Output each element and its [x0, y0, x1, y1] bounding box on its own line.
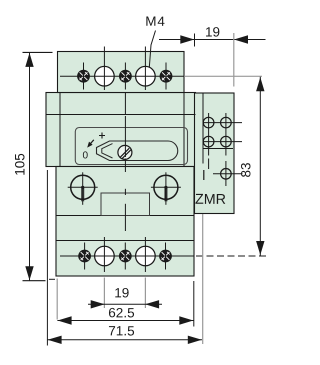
dim 19 top right arrow	[234, 35, 248, 43]
top hole centerline stubs	[83, 63, 85, 90]
ZMR side panel	[195, 93, 235, 214]
dim 71.5 line	[47, 339, 202, 341]
panel inner edge dash continuation	[203, 170, 205, 180]
panel horizontal edge	[203, 148, 233, 150]
dim 62.5 right arrow	[179, 316, 193, 324]
svg-text:19: 19	[205, 25, 220, 40]
svg-text:71.5: 71.5	[108, 323, 134, 338]
dim 19 bottom line	[88, 303, 162, 305]
top strip holes centerline	[60, 75, 184, 77]
dim 105 extension tick bottom	[23, 280, 46, 282]
toggle inner chevron	[102, 144, 113, 158]
svg-text:0: 0	[82, 150, 88, 161]
svg-text:ZMR: ZMR	[195, 192, 226, 208]
dim 19 top gray extension	[233, 33, 235, 87]
top strip large hole M4 second	[136, 66, 156, 86]
dim 62.5 extensions	[56, 279, 58, 320]
panel terminal circle row2 col1	[203, 136, 214, 147]
svg-text:M4: M4	[145, 14, 166, 29]
top strip large hole M4	[95, 66, 115, 86]
centerline extension right to 83 dim	[184, 75, 262, 77]
plus mark	[99, 133, 105, 139]
top strip hatched hole 2	[120, 70, 132, 82]
bottom strip holes centerline	[60, 255, 194, 257]
middle mounting circle left	[68, 172, 98, 205]
dim 62.5 line	[57, 320, 193, 322]
dim 83 line	[259, 77, 261, 256]
panel col2 centerline	[225, 113, 227, 156]
panel lower circle centerlines	[213, 173, 243, 175]
section boundary line y=215.5	[56, 215, 194, 217]
dim 62.5 left arrow	[58, 316, 72, 324]
inner horizontal edge of upper body	[46, 114, 196, 116]
handle recess	[75, 128, 187, 165]
panel inner vertical edge	[202, 93, 204, 164]
body upper-middle section	[46, 93, 196, 167]
middle mounting circle right	[151, 172, 181, 205]
dim 19 top extension stub	[194, 34, 196, 47]
panel lower circle	[221, 169, 232, 180]
panel col1 centerline dash continuation	[208, 159, 210, 170]
top mounting strip	[58, 52, 185, 93]
panel terminal circle row1 col2	[221, 117, 232, 128]
dim 19 bottom gray extensions	[103, 278, 105, 309]
bottom strip large hole 2	[136, 246, 156, 266]
panel col1 centerline	[208, 113, 210, 156]
svg-text:83: 83	[239, 162, 254, 177]
dim 71.5 left arrow	[48, 336, 62, 344]
top strip hatched hole 3	[160, 70, 172, 82]
dim 19 top line	[159, 39, 266, 41]
panel terminal circle row2 col2	[221, 136, 232, 147]
dim 19 bottom left arrow	[91, 300, 105, 308]
dim 105 arrow up	[25, 53, 33, 67]
inner vertical edge right of upper body	[183, 93, 185, 167]
small direction arrow	[87, 140, 94, 148]
dim 105 line	[29, 52, 31, 280]
device centerline upper segments	[124, 93, 126, 115]
svg-text:19: 19	[114, 285, 129, 300]
dim 71.5 right arrow	[188, 336, 202, 344]
rotary toggle outline	[97, 141, 178, 161]
svg-text:105: 105	[12, 153, 27, 176]
panel row2 centerline	[204, 141, 243, 143]
panel row1 centerline	[204, 122, 243, 124]
dash mark near bottom tick	[49, 278, 55, 280]
bottom strip hatched hole 2	[119, 250, 131, 262]
bottom centerline dashed extension right	[196, 255, 266, 257]
centerline segments at label window	[124, 189, 126, 195]
bottom strip large hole 1	[95, 246, 115, 266]
dim 105 extension tick top	[23, 51, 53, 53]
top strip hatched hole 1	[78, 70, 90, 82]
dim 83 arrow up	[256, 77, 264, 91]
section boundary line y=240.5	[56, 240, 194, 242]
toggle knob screw circle with slot	[118, 145, 132, 159]
right black extension line	[193, 281, 195, 327]
bottom hole centerline stubs	[84, 243, 86, 270]
dim 105 arrow down	[25, 266, 33, 280]
svg-text:62.5: 62.5	[108, 305, 134, 320]
inner vertical edge left of upper body	[59, 93, 61, 167]
dim 83 arrow down	[256, 241, 264, 255]
bottom strip hatched hole 3	[160, 250, 172, 262]
panel terminal circle row1 col1	[203, 117, 214, 128]
dim 19 bottom right arrow	[145, 300, 159, 308]
body middle/lower block	[56, 167, 194, 277]
right gray extension line	[202, 214, 204, 344]
bottom strip hatched hole 1	[79, 250, 91, 262]
dim 19 top left arrow	[180, 35, 194, 43]
left black extension line	[46, 170, 48, 346]
label window	[101, 193, 150, 216]
M4 leader line	[149, 31, 155, 68]
